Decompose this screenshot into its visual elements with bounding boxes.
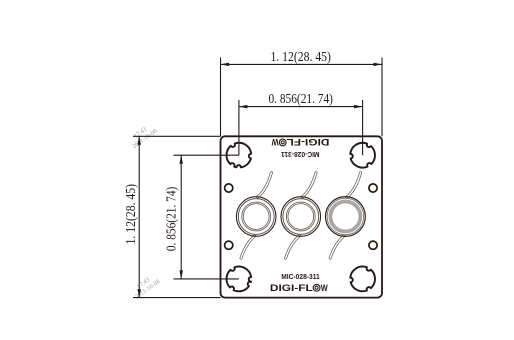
svg-text:MIC-028-311: MIC-028-311 xyxy=(281,272,320,281)
watermark top-left xyxy=(127,122,159,151)
svg-text:DIGI-FL: DIGI-FL xyxy=(270,283,313,294)
corner mounting hole bottom-left xyxy=(226,267,251,292)
dimension top inner 0.856(21.74) xyxy=(238,100,240,155)
small hole right upper xyxy=(369,184,377,192)
small hole right lower xyxy=(369,241,377,249)
flow port circle 3 xyxy=(326,197,366,237)
svg-text:W: W xyxy=(321,283,328,294)
corner mounting hole top-right xyxy=(350,143,375,168)
svg-text:1. 12(28. 45): 1. 12(28. 45) xyxy=(270,50,331,65)
svg-text:MIC-028-311: MIC-028-311 xyxy=(281,150,320,159)
small hole left lower xyxy=(225,241,233,249)
flow port circle 1 xyxy=(236,197,276,237)
svg-text:W: W xyxy=(272,136,279,147)
small hole left upper xyxy=(225,184,233,192)
dimension top outer 1.12(28.45) xyxy=(220,58,222,137)
label DIGI-FLOW bottom xyxy=(270,283,328,294)
flow channel tube 3 xyxy=(347,173,361,197)
svg-text:0. 856(21. 74): 0. 856(21. 74) xyxy=(268,92,333,107)
dimension left outer 1.12(28.45) xyxy=(133,135,221,137)
svg-text:DIGI-FL: DIGI-FL xyxy=(286,136,329,147)
plate outline xyxy=(221,136,383,297)
corner mounting hole bottom-right xyxy=(350,267,375,292)
flow channel tube 1 xyxy=(258,173,272,197)
svg-text:1. 12(28. 45): 1. 12(28. 45) xyxy=(124,184,139,245)
watermark bottom-left xyxy=(130,272,162,301)
dimension left inner 0.856(21.74) xyxy=(174,154,239,156)
label DIGI-FLOW top (rotated) xyxy=(272,136,330,147)
flow port circle 2 xyxy=(281,197,321,237)
flow channel tube 2 xyxy=(302,173,316,197)
svg-text:0. 856(21. 74): 0. 856(21. 74) xyxy=(164,186,179,251)
corner mounting hole top-left xyxy=(226,143,251,168)
